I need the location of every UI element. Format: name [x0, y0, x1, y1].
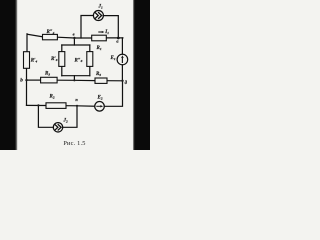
wire J1 left lead [81, 16, 93, 39]
wire subloop left vertical upper [61, 45, 63, 52]
right black scan bar [134, 0, 150, 150]
emf source E1 [117, 54, 128, 65]
wire left branch vertical lower [26, 68, 28, 80]
svg-text:R′6: R′6 [51, 57, 58, 62]
emf source E2 [95, 102, 105, 112]
wire left branch to b node down [26, 80, 28, 105]
node J2-tap dot [37, 104, 39, 106]
wire subloop right vertical upper [89, 45, 91, 52]
resistor R'4 [24, 52, 30, 69]
wire subloop right vertical lower [89, 66, 91, 75]
wire J1 right lead [103, 16, 118, 38]
current arrow I1 [98, 31, 102, 33]
svg-text:E2: E2 [97, 96, 103, 101]
svg-text:R1: R1 [97, 46, 102, 51]
wire R5 to node d [107, 80, 123, 82]
wire left lead R"4 [27, 34, 42, 37]
svg-text:Рис. 1.5: Рис. 1.5 [63, 140, 85, 147]
wire R3 to subloop node [57, 79, 74, 81]
wire subloop bottom rail [62, 75, 90, 77]
wire bus right of R1 [106, 37, 123, 39]
wire subloop left vertical lower [61, 66, 63, 75]
emf E2 arrow [96, 105, 102, 107]
wire E1 branch lower to node d [121, 65, 123, 81]
resistor R5 [95, 78, 107, 83]
resistor R"6 [87, 52, 93, 67]
wire top bus [57, 36, 91, 39]
current source J1 [93, 11, 103, 21]
resistor R3 [41, 77, 58, 83]
svg-text:J1: J1 [98, 5, 104, 10]
wire subloop node to R5 [74, 79, 95, 81]
wire subloop connector top [73, 38, 75, 45]
wire subloop connector bottom [73, 76, 75, 81]
wire R2 to node n [66, 105, 77, 107]
svg-text:R2: R2 [50, 95, 55, 100]
resistor R1 [92, 35, 107, 41]
svg-text:R″4: R″4 [47, 30, 55, 35]
left black scan bar [0, 0, 16, 150]
emf E1 arrow [121, 57, 123, 63]
resistor R2 [46, 103, 66, 109]
svg-text:а: а [116, 39, 118, 44]
node b dot [25, 79, 27, 81]
wire rail b to R3 [27, 79, 41, 81]
wire node d down to E2 corner [104, 81, 122, 107]
node subloop-bottom dot [73, 79, 75, 81]
paper background [0, 0, 150, 150]
node n dot [76, 105, 78, 107]
node a dot [117, 37, 120, 40]
wire R2 rail left [27, 104, 47, 106]
current source J2 [53, 123, 62, 132]
wire E1 branch upper [121, 38, 123, 54]
svg-text:b: b [20, 78, 23, 84]
wire subloop top rail [62, 44, 90, 46]
svg-text:E1: E1 [110, 56, 116, 61]
svg-text:R′4: R′4 [31, 59, 38, 64]
resistor R"4 [43, 34, 58, 39]
node v dot [73, 37, 75, 39]
wire J2 right lead [63, 106, 77, 128]
svg-text:J2: J2 [63, 119, 69, 124]
wire left branch vertical upper [26, 34, 28, 52]
svg-text:R″6: R″6 [75, 58, 83, 63]
wire node n to E2 [77, 105, 95, 107]
svg-text:I1: I1 [104, 30, 109, 35]
node d dot [121, 80, 123, 82]
resistor R'6 [59, 52, 65, 67]
svg-text:R5: R5 [96, 72, 101, 77]
svg-text:R3: R3 [45, 72, 50, 77]
wire J2 tap vertical [38, 105, 53, 127]
svg-text:в: в [73, 32, 75, 37]
